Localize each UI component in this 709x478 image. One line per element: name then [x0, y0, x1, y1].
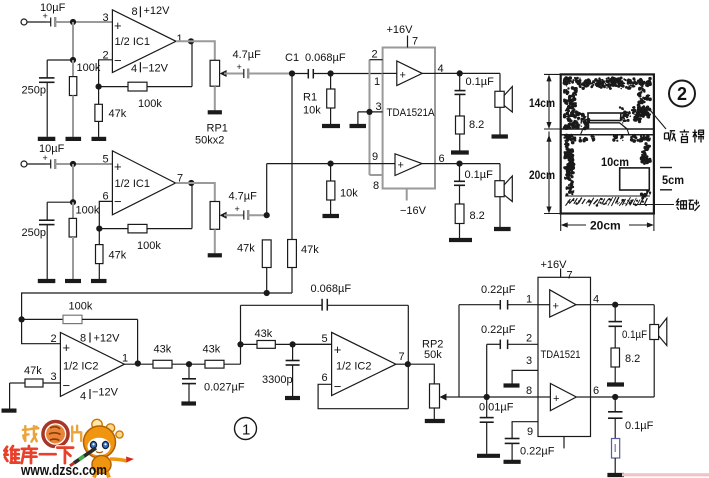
mascot right arm with flag — [110, 459, 127, 461]
ground (0.027uF) — [181, 401, 196, 405]
svg-text:7: 7 — [412, 36, 418, 48]
resistor 8.2 (ch1 zobel) — [456, 116, 485, 151]
node A (ch1 input junction) — [70, 19, 76, 25]
wire mix line to IC2a — [22, 293, 267, 319]
svg-text:10k: 10k — [303, 105, 321, 117]
svg-text:RP1: RP1 — [207, 123, 228, 135]
wire pin9 line — [267, 163, 383, 165]
svg-text:8.2: 8.2 — [625, 353, 640, 365]
node C (ch1 fb junction) — [96, 84, 102, 90]
capacitor 0.1uF (btl zobel b) — [608, 397, 654, 439]
svg-text:9: 9 — [372, 151, 378, 163]
svg-text:0.068µF: 0.068µF — [311, 283, 352, 295]
wire btl right leg — [653, 305, 655, 397]
op-amp D (TDA1521 lower) — [538, 384, 591, 411]
svg-text:3: 3 — [51, 371, 57, 383]
wire pin6 stub — [99, 201, 112, 244]
svg-text:2: 2 — [372, 49, 378, 61]
resistor 47k (ch1 mix) — [267, 240, 320, 294]
resistor 43k (filter 1) — [153, 344, 205, 369]
svg-text:7: 7 — [399, 351, 405, 363]
op-amp A (TDA1521A upper) — [383, 61, 435, 86]
capacitor 10uF (ch2 input) — [39, 143, 65, 169]
svg-text:+: + — [237, 62, 242, 72]
wire C1 node down — [291, 74, 293, 240]
node pin4 — [612, 302, 618, 308]
resistor 43k (filter 3) — [241, 328, 332, 348]
wire pin2 stub — [99, 60, 113, 105]
ground (LS1) — [492, 134, 508, 138]
svg-text:4: 4 — [80, 391, 86, 403]
wire pin5 — [293, 343, 332, 345]
svg-text:0.068µF: 0.068µF — [305, 52, 346, 64]
node pin3 — [366, 109, 372, 115]
node R1 top — [328, 70, 334, 76]
svg-text:1: 1 — [177, 33, 183, 45]
svg-text:100k: 100k — [76, 205, 100, 217]
svg-text:8: 8 — [526, 385, 532, 397]
svg-text:C1: C1 — [285, 52, 299, 64]
op-amp U1b (1/2 IC1) — [103, 151, 184, 215]
svg-text:3: 3 — [103, 12, 109, 24]
svg-text:+: + — [235, 204, 240, 214]
svg-text:0.1µF: 0.1µF — [622, 329, 647, 341]
ground (47k ch1) — [92, 137, 107, 141]
node pin4 — [457, 70, 463, 76]
svg-text:+: + — [400, 70, 406, 82]
node F (ch2 RC junction) — [70, 199, 76, 205]
-16V pin (TDA1521A) — [400, 189, 427, 218]
svg-text:+: + — [334, 342, 342, 357]
watermark pink underline — [622, 473, 709, 476]
svg-text:−12V: −12V — [142, 63, 169, 75]
op-amp C (TDA1521 upper) — [538, 290, 591, 317]
speaker driver (in divider) — [581, 113, 630, 135]
ground (RP1b) — [208, 253, 222, 257]
svg-text:250p: 250p — [22, 227, 46, 239]
svg-text:1: 1 — [242, 422, 250, 439]
ground (ch1 zobel) — [451, 150, 469, 154]
ground pin stub (TDA1521 bottom) — [563, 437, 565, 449]
capacitor 0.1uF (ch2 zobel) — [454, 164, 493, 204]
ground (R1) — [322, 124, 340, 128]
ground (47k IC2a) — [2, 409, 17, 413]
svg-text:−: − — [334, 379, 342, 394]
node I (ch2 cap out junction) — [264, 212, 270, 218]
svg-text:10cm: 10cm — [601, 155, 629, 169]
wire up to pin1 line — [458, 305, 460, 397]
absorbing cotton texture (generated) — [563, 76, 652, 199]
svg-text:+: + — [553, 393, 559, 405]
svg-text:6: 6 — [322, 372, 328, 384]
resistor 47k (ch2 to gnd) — [96, 245, 127, 279]
pin 4 output — [591, 294, 655, 306]
pin 9 wire and cap 0.22uF — [505, 422, 555, 460]
node B (ch1 RC junction) — [70, 57, 76, 63]
svg-text:−: − — [114, 53, 122, 68]
svg-text:4: 4 — [131, 63, 137, 75]
svg-text:+: + — [63, 340, 71, 355]
node L (filter node 1) — [186, 361, 192, 367]
node pin6 — [456, 161, 462, 167]
IC U4 TDA1521 box — [538, 277, 591, 436]
resistor 47k (ch2 mix) — [237, 240, 271, 293]
svg-text:3300p: 3300p — [262, 374, 293, 386]
svg-text:14cm: 14cm — [529, 96, 555, 110]
svg-text:0.01µF: 0.01µF — [479, 402, 514, 414]
wire node B to 250p — [47, 59, 73, 61]
IC U2 TDA1521A box — [383, 48, 435, 189]
capacitor 0.1uF (btl zobel a) — [609, 305, 648, 348]
svg-text:100k: 100k — [69, 301, 93, 313]
svg-text:0.22µF: 0.22µF — [520, 446, 555, 458]
svg-text:50k: 50k — [424, 349, 442, 361]
enclosure divider board — [562, 129, 654, 135]
svg-text:47k: 47k — [237, 243, 255, 255]
capacitor 0.027uF — [182, 364, 245, 401]
svg-text:1: 1 — [122, 353, 128, 365]
pin 3 wire to ground — [512, 355, 538, 384]
svg-text:TDA1521: TDA1521 — [541, 349, 581, 361]
svg-text:5: 5 — [103, 154, 109, 166]
svg-text:+: + — [114, 18, 122, 33]
svg-text:R1: R1 — [303, 92, 317, 104]
wire pin6 loop — [318, 384, 408, 408]
node pin6 — [612, 394, 618, 400]
svg-text:4: 4 — [593, 294, 599, 306]
svg-text:47k: 47k — [301, 244, 319, 256]
wire to TDA1521A pin1 — [331, 73, 383, 75]
wire IC2a out — [124, 363, 153, 365]
capacitor 0.1uF (ch1 zobel) — [455, 73, 495, 116]
potentiometer RP1b — [210, 202, 244, 254]
circled number 1 — [235, 418, 257, 440]
wire cap to pin3 IC1 — [55, 21, 112, 23]
ground (btl zobel b) — [607, 473, 624, 477]
port tube 10cm x 5cm — [601, 155, 684, 190]
svg-text:8.2: 8.2 — [469, 119, 484, 131]
ground (0.22uF pin9) — [504, 460, 521, 464]
ground (47k ch2) — [91, 279, 107, 283]
wire node F to 250p — [47, 201, 73, 203]
svg-text:9: 9 — [527, 426, 533, 438]
svg-text:+16V: +16V — [387, 24, 414, 36]
svg-text:0.22µF: 0.22µF — [481, 284, 516, 296]
svg-text:4.7µF: 4.7µF — [233, 49, 262, 61]
svg-text:1/2 IC2: 1/2 IC2 — [336, 361, 371, 373]
input terminal J1 (channel 1) — [21, 19, 27, 25]
ground (pin3 TDA1521A) — [350, 124, 367, 128]
pin 4 output wire — [435, 63, 500, 75]
op-amp B (TDA1521A lower) — [383, 154, 435, 176]
wire node A down — [72, 22, 74, 60]
pin 3 wire to ground — [358, 112, 383, 124]
+16V pin 7 (TDA1521A) — [387, 24, 419, 48]
pin 6 output wire — [435, 153, 500, 165]
svg-text:+12V: +12V — [94, 333, 121, 345]
node K (IC2a output) — [135, 360, 141, 366]
ground (LS2) — [494, 227, 511, 231]
svg-text:0.1µF: 0.1µF — [625, 420, 654, 432]
node N (filter node 3) — [290, 341, 296, 347]
op-amp U3a (1/2 IC2) — [51, 333, 129, 403]
potentiometer RP2 50k — [422, 339, 459, 420]
label 吸音棉 (absorbing cotton) with pointer — [650, 110, 704, 143]
svg-text:250p: 250p — [22, 85, 46, 97]
svg-text:www.dzsc.com: www.dzsc.com — [20, 462, 107, 478]
resistor 8.2 (ch2 zobel) — [455, 204, 485, 238]
watermark logo 找芯片 mascot — [23, 419, 134, 478]
svg-text:47k: 47k — [109, 250, 127, 262]
ground (RP2) — [425, 419, 445, 423]
node M (filter node 2) — [237, 341, 243, 347]
node mix — [264, 290, 270, 296]
op-amp U1a (1/2 IC1) — [103, 5, 183, 75]
svg-text:TDA1521A: TDA1521A — [387, 107, 436, 119]
node O (IC2b output) — [405, 361, 411, 367]
wire J2 to cap — [27, 163, 46, 165]
svg-text:2: 2 — [51, 333, 57, 345]
wire output to RP1a — [176, 41, 215, 60]
resistor 100k (ch1 input to gnd) — [69, 60, 100, 137]
mascot head — [84, 426, 116, 458]
wire node I up to pin9 line — [266, 164, 268, 216]
pin 6 output — [591, 385, 655, 397]
node J (IC2a input node) — [19, 316, 25, 322]
svg-text:−16V: −16V — [400, 205, 427, 217]
resistor 43k (filter 2) — [203, 305, 241, 368]
node H (ch2 output) — [188, 180, 194, 186]
svg-text:43k: 43k — [255, 328, 273, 340]
wire node J to pin2 — [22, 319, 61, 343]
svg-text:47k: 47k — [24, 365, 42, 377]
input terminal J2 (channel 2) — [21, 161, 27, 167]
svg-text:3: 3 — [376, 101, 382, 113]
svg-text:2: 2 — [526, 333, 532, 345]
resistor R1 10k — [303, 74, 335, 125]
svg-text:−: − — [63, 378, 71, 393]
svg-text:0.1µF: 0.1µF — [465, 169, 494, 181]
svg-text:8: 8 — [132, 6, 138, 18]
svg-text:0.1µF: 0.1µF — [466, 76, 495, 88]
+16V pin 7 (TDA1521) — [541, 259, 573, 282]
node C1 — [289, 70, 295, 76]
wire output to RP1b — [176, 183, 215, 202]
ground (100k ch2) — [65, 279, 81, 283]
svg-text:10k: 10k — [340, 188, 358, 200]
svg-text:−: − — [114, 194, 122, 209]
dimension 14cm — [529, 74, 561, 129]
svg-text:2: 2 — [677, 84, 687, 104]
svg-text:100k: 100k — [138, 98, 162, 110]
capacitor 0.22uF (pin1) — [459, 284, 538, 310]
speaker LS2 (ch2) — [495, 164, 512, 227]
svg-text:0.027µF: 0.027µF — [204, 382, 245, 394]
svg-text:1: 1 — [526, 294, 532, 306]
capacitor 10uF (ch1 input) — [40, 2, 66, 27]
svg-text:5cm: 5cm — [662, 173, 684, 187]
ground (100k ch1) — [66, 137, 82, 141]
capacitor 0.01uF (pin8 to gnd) — [479, 397, 514, 454]
op-amp U3b (1/2 IC2) — [322, 332, 405, 395]
wire node E down — [72, 164, 74, 202]
svg-text:6: 6 — [103, 191, 109, 203]
resistor 8.2 (btl zobel a) — [611, 348, 640, 383]
ground (ch2 zobel) — [449, 238, 472, 242]
resistor 100k (ch2 feedback) — [99, 183, 192, 252]
svg-text:+: + — [553, 301, 559, 313]
ground (pin3 TDA1521) — [504, 383, 520, 387]
magnifier of logo — [46, 425, 65, 444]
resistor 47k (IC2a pin3) — [10, 365, 61, 409]
mascot pen — [74, 448, 96, 463]
resistor 10k (pin9 to gnd) — [327, 164, 359, 214]
svg-text:4.7µF: 4.7µF — [229, 191, 258, 203]
circled number 2 — [669, 81, 695, 107]
svg-text:−12V: −12V — [92, 387, 119, 399]
resistor 47k (ch1 to gnd) — [95, 104, 127, 137]
svg-text:47k: 47k — [109, 108, 127, 120]
ground (3300p) — [285, 396, 300, 400]
bus wire pins 2-8 (TDA1521A) — [370, 49, 383, 193]
resistor 100k (ch2 input to gnd) — [69, 202, 100, 279]
svg-text:8: 8 — [80, 333, 86, 345]
svg-text:43k: 43k — [203, 344, 221, 356]
ground (0.01uF) — [477, 454, 500, 458]
svg-text:+16V: +16V — [541, 259, 568, 271]
svg-text:50kx2: 50kx2 — [195, 135, 224, 147]
resistor 8.2 (btl zobel b) — [612, 439, 620, 474]
node G (ch2 fb junction) — [96, 226, 102, 232]
svg-text:+: + — [398, 160, 404, 172]
capacitor 0.068uF (ch1 coupling) — [292, 52, 346, 79]
potentiometer RP1a — [195, 60, 244, 146]
ground (RP1a) — [208, 110, 222, 114]
svg-text:+: + — [43, 153, 48, 163]
svg-text:1: 1 — [374, 76, 380, 88]
svg-text:7: 7 — [567, 270, 573, 282]
svg-text:+12V: +12V — [144, 5, 171, 17]
node E (ch2 input junction) — [70, 161, 76, 167]
node P (pin8 junction) — [484, 394, 490, 400]
svg-text:100k: 100k — [137, 240, 161, 252]
capacitor 0.22uF (pin2) — [481, 324, 538, 397]
ground (btl zobel a) — [607, 382, 624, 386]
speaker enclosure outer box — [561, 74, 654, 213]
resistor 100k (ch1 feedback) — [99, 41, 192, 110]
svg-text:20cm: 20cm — [590, 219, 621, 233]
node 10k top — [328, 161, 334, 167]
svg-text:100k: 100k — [77, 62, 101, 74]
sand area (bottom of enclosure) — [565, 196, 650, 207]
speaker LS3 (btl) — [650, 318, 667, 346]
speaker LS1 (ch1) — [495, 73, 512, 134]
wire J1 to C 10uF — [27, 21, 46, 23]
ground (250p ch1) — [38, 137, 56, 141]
svg-text:1/2 IC1: 1/2 IC1 — [115, 178, 150, 190]
wire RP2 wiper to pin8 — [459, 396, 538, 398]
svg-text:5: 5 — [322, 333, 328, 345]
node D (ch1 output) — [188, 38, 194, 44]
capacitor 0.068uF (IC2b feedback) — [241, 283, 409, 409]
wire IC2b out to RP2 — [396, 363, 408, 365]
ground (10k) — [323, 214, 340, 218]
svg-text:8.2: 8.2 — [470, 210, 485, 222]
svg-text:6: 6 — [593, 385, 599, 397]
svg-text:+: + — [114, 159, 122, 174]
svg-text:1/2 IC2: 1/2 IC2 — [63, 361, 98, 373]
label 细砂 (fine sand) with pointer — [633, 199, 700, 211]
dimension 20cm (left) — [529, 132, 561, 214]
resistor 100k (IC2a feedback) — [22, 301, 138, 364]
ground (250p ch2) — [38, 279, 56, 283]
svg-text:1/2 IC1: 1/2 IC1 — [115, 36, 150, 48]
mascot legs — [94, 472, 96, 478]
watermark text 维库一下 — [4, 446, 73, 463]
capacitor 3300p — [262, 344, 300, 396]
wire cap to pin5 IC1 — [55, 163, 112, 165]
svg-text:8: 8 — [373, 180, 379, 192]
capacitor 4.7uF (ch2) — [229, 191, 267, 221]
mascot body — [92, 456, 111, 474]
svg-text:0.22µF: 0.22µF — [481, 324, 516, 336]
dimension 20cm (bottom) — [561, 214, 654, 233]
capacitor 250p (ch1) — [22, 60, 55, 137]
svg-text:+: + — [43, 11, 48, 21]
svg-text:43k: 43k — [154, 344, 172, 356]
svg-text:20cm: 20cm — [529, 168, 555, 182]
capacitor 250p (ch2) — [22, 202, 55, 279]
capacitor 4.7uF (ch1) — [233, 49, 293, 79]
mascot crown bulbs — [92, 419, 123, 438]
svg-text:3: 3 — [526, 355, 532, 367]
